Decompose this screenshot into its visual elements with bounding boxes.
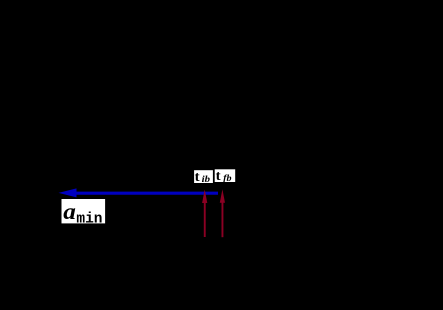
svg-text:ib: ib bbox=[202, 174, 211, 184]
red arrow 2 (t_fb marker) bbox=[220, 189, 225, 237]
blue arrowhead bbox=[59, 188, 77, 197]
svg-text:t: t bbox=[195, 169, 200, 184]
node t_ib label box bbox=[194, 169, 213, 184]
node t_fb label box bbox=[215, 168, 236, 183]
svg-text:t: t bbox=[216, 168, 221, 183]
svg-text:fb: fb bbox=[223, 173, 232, 183]
red arrow 1 (t_ib marker) bbox=[202, 190, 207, 238]
wire blue deceleration arrow line bbox=[75, 192, 218, 195]
svg-text:min: min bbox=[76, 211, 102, 227]
svg-text:ɑ: ɑ bbox=[63, 199, 76, 224]
node a_min label box bbox=[62, 199, 106, 227]
